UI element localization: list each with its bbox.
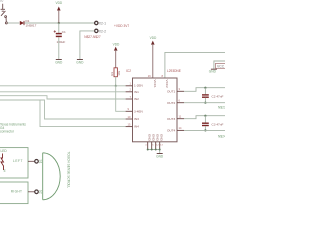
switch S1 (1, 11, 7, 24)
connector LEFT box (0, 148, 28, 178)
pin 3 OUT1 (167, 87, 184, 93)
svg-text:GND: GND (156, 134, 160, 142)
svg-text:LEFT: LEFT (13, 159, 23, 163)
pin 1 1-2EN (126, 81, 143, 87)
pin 11 OUT3 (167, 115, 184, 121)
svg-text:N$27-N$27: N$27-N$27 (84, 35, 101, 39)
svg-text:S2: S2 (38, 190, 42, 194)
connector RIGHT box (0, 182, 28, 204)
svg-text:VCC2: VCC2 (165, 80, 169, 89)
svg-text:X2-1: X2-1 (99, 22, 106, 26)
pin 10 IN3 (126, 115, 139, 121)
svg-text:OUT3: OUT3 (167, 117, 176, 121)
wire battery to diode (7, 22, 19, 24)
svg-text:VCC: VCC (217, 65, 225, 69)
svg-text:IN2: IN2 (134, 97, 139, 101)
node gnd bus dots (147, 149, 161, 151)
wire C1 to gnd (58, 37, 60, 60)
svg-text:IN1: IN1 (134, 90, 139, 94)
diode D1 (20, 19, 37, 28)
svg-text:VDD: VDD (56, 1, 63, 5)
svg-text:100uF: 100uF (57, 40, 66, 44)
connector pin X2-1 (95, 21, 106, 25)
svg-text:N$24: N$24 (218, 134, 225, 138)
LED LED1 (1, 149, 8, 173)
svg-text:D1: D1 (26, 19, 30, 23)
svg-text:OUT1: OUT1 (167, 89, 176, 93)
wire gnd bus (145, 145, 163, 147)
connector X1 VCC box (clipped) (216, 63, 227, 68)
battery B1 (1, 4, 5, 12)
svg-text:OUT4: OUT4 (167, 129, 176, 133)
svg-text:R1: R1 (110, 72, 114, 76)
svg-text:3-4EN: 3-4EN (134, 109, 143, 113)
ground GND2 (76, 60, 84, 65)
wire top-right to edge (214, 61, 225, 69)
pin 14 OUT4 (167, 126, 184, 132)
svg-text:9V: 9V (0, 0, 4, 3)
capacitor C3 (202, 116, 223, 131)
supply VDD arrow 3 (VCC1) (150, 36, 157, 78)
wire OUT2 (184, 102, 225, 104)
pin 9 3-4EN (126, 107, 143, 113)
wire OUT3 (184, 116, 225, 119)
svg-text:connector: connector (0, 130, 15, 134)
svg-text:IN3: IN3 (134, 117, 139, 121)
svg-text:IN4: IN4 (134, 125, 139, 129)
svg-text:VDD: VDD (113, 43, 120, 47)
wire junction to C1 (58, 23, 60, 33)
resistor R1 10k (110, 68, 121, 77)
svg-text:E: E (4, 169, 6, 173)
svg-text:VCC1: VCC1 (153, 80, 157, 89)
svg-text:10k: 10k (117, 70, 121, 75)
wire L4 to IN3 (0, 100, 126, 119)
svg-text:S1: S1 (38, 160, 42, 164)
pin 15 IN4 (126, 122, 139, 128)
svg-text:1-2EN: 1-2EN (134, 84, 143, 88)
pin RIGHT circle (28, 190, 42, 194)
svg-text:GND: GND (152, 134, 156, 142)
ground GND1 (55, 60, 63, 65)
connector pin X2-2 (84, 29, 106, 39)
svg-text:GND: GND (148, 134, 152, 142)
ground GND3 (156, 154, 164, 159)
pin 7 IN2 (126, 95, 139, 101)
svg-text:VDD: VDD (150, 36, 157, 40)
node C3 top (204, 115, 206, 117)
svg-text:GND: GND (160, 134, 164, 142)
svg-text:GND: GND (76, 61, 84, 65)
svg-text:C3 47nF: C3 47nF (212, 123, 224, 127)
node C2 bottom (204, 102, 206, 104)
wire L2 to IN1 (0, 91, 126, 93)
svg-text:LED: LED (1, 149, 8, 153)
node C2 top (204, 87, 206, 89)
wire L3 to IN2 (0, 96, 126, 99)
wire OUT4 (184, 129, 225, 131)
svg-text:RIGHT: RIGHT (11, 190, 23, 194)
wire OUT1 (184, 88, 225, 92)
svg-text:C1: C1 (62, 30, 66, 34)
node VDD junction (58, 22, 60, 24)
node EN junction (115, 85, 117, 87)
wire to IN4 (40, 100, 126, 127)
svg-text:L293DNE: L293DNE (167, 69, 181, 73)
pin 2 IN1 (126, 88, 139, 94)
capacitor C2 (202, 88, 223, 103)
IC IC2 L293DNE body (126, 69, 181, 142)
bottom gnd pins 4,5,12,13 (148, 142, 160, 150)
supply VDD arrow 1 (56, 1, 63, 23)
svg-text:+VDD 3V7: +VDD 3V7 (114, 24, 129, 28)
pin 6 OUT2 (167, 99, 184, 105)
wire X2-2 to gnd (80, 31, 95, 60)
note Texas Instruments connector (0, 123, 26, 134)
wire L1 to 1-2EN (0, 85, 126, 87)
pin labels GND x4 (148, 134, 164, 142)
supply VDD arrow 2 (R1 pullup) (113, 43, 120, 68)
wire R1 to node (115, 77, 117, 86)
capacitor C1 100uF (54, 30, 66, 44)
wire EN bridge to 3-4EN (116, 86, 126, 112)
ground GND4 (209, 69, 217, 73)
svg-text:OUT2: OUT2 (167, 101, 176, 105)
svg-text:GND: GND (55, 61, 63, 65)
svg-text:X2-2: X2-2 (99, 29, 106, 33)
svg-text:IC2: IC2 (126, 69, 131, 73)
svg-text:1N5817: 1N5817 (26, 23, 37, 27)
node C3 bottom (204, 129, 206, 131)
svg-text:TOUCH SENSE SCROLL: TOUCH SENSE SCROLL (66, 152, 70, 189)
wire VCC2 to right edge (165, 52, 225, 78)
svg-text:GND: GND (156, 155, 164, 159)
wire diode to X2-1 (25, 22, 95, 24)
touch wheel D shape (43, 153, 61, 200)
svg-text:C2 47nF: C2 47nF (212, 94, 224, 98)
svg-text:N$23: N$23 (218, 105, 225, 109)
pin LEFT circle (28, 160, 42, 164)
svg-text:GND: GND (209, 70, 217, 74)
